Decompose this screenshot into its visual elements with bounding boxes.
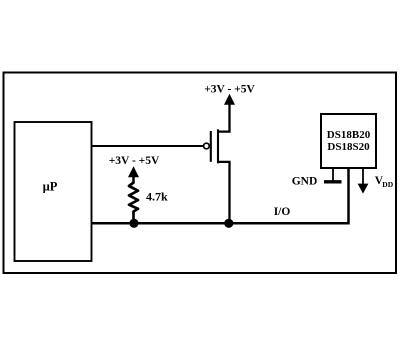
power symbol +3V - +5V at resistor top [109,155,160,184]
microprocessor µP box [15,122,92,261]
junction: MOSFET source to I/O wire [224,219,233,228]
resistor 4.7k [129,183,168,220]
power symbol +3V - +5V at MOSFET drain [204,84,255,105]
svg-text:µP: µP [43,180,58,194]
DS18B20/DS18S20 sensor box [321,114,376,168]
pin: GND lead [332,168,334,181]
svg-text:I/O: I/O [274,206,291,218]
svg-text:DD: DD [382,180,393,189]
svg-text:+3V - +5V: +3V - +5V [204,84,255,96]
svg-text:+3V - +5V: +3V - +5V [109,155,160,167]
svg-text:GND: GND [292,175,318,187]
junction: resistor to I/O wire [129,219,138,228]
svg-text:4.7k: 4.7k [146,190,168,204]
node: VDD label [375,175,394,189]
MOSFET transistor (P-channel) [204,104,230,223]
svg-text:DS18S20: DS18S20 [327,141,370,153]
wire: µP to MOSFET gate [92,145,204,147]
svg-text:DS18B20: DS18B20 [327,129,371,141]
ground symbol [324,180,342,183]
wire: I/O line from µP to DS18B20 pin [92,168,349,223]
pin: VDD lead with arrow [358,168,369,194]
